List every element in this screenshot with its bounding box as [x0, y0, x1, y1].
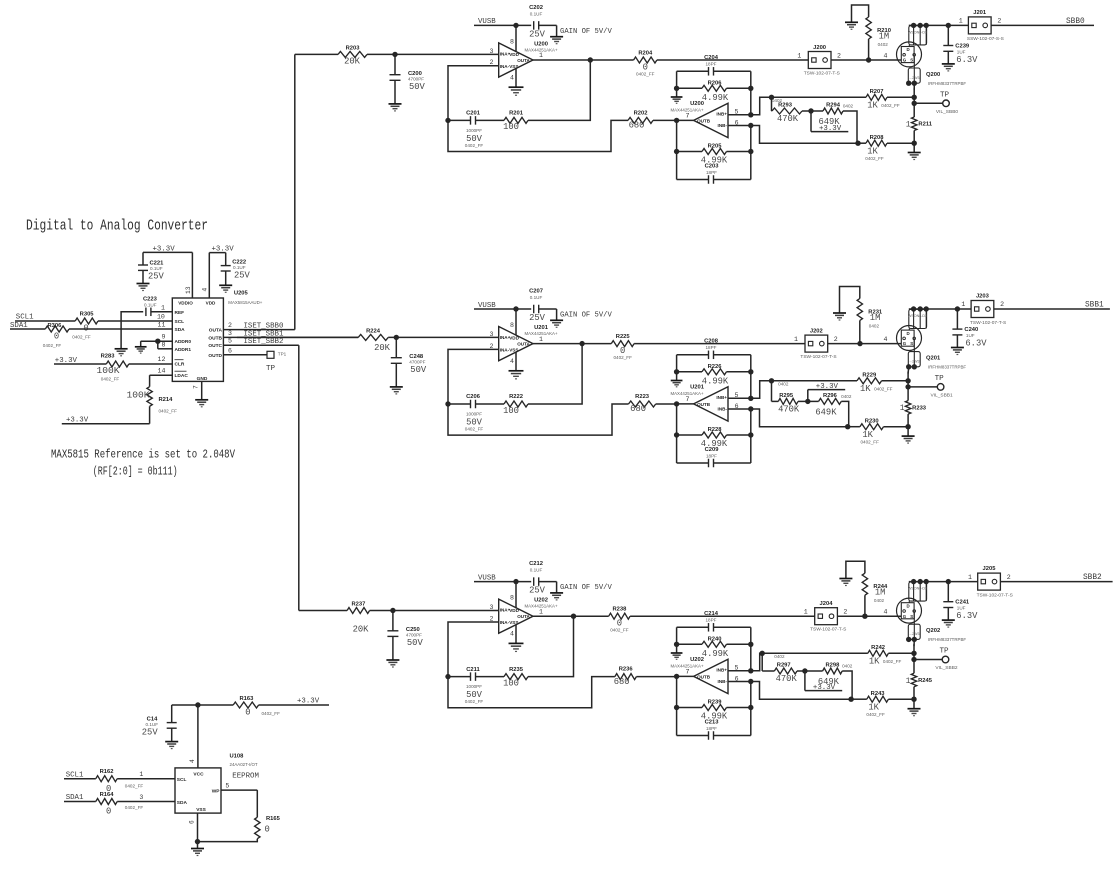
svg-text:C202: C202 [529, 5, 543, 11]
connector J202 TSW-102-07-T-S [794, 328, 838, 360]
svg-text:SCL: SCL [175, 319, 185, 325]
resistor R226 4.99K top [677, 364, 751, 386]
wire bottom row [851, 698, 867, 700]
svg-text:470K: 470K [777, 114, 799, 124]
svg-text:C212: C212 [529, 561, 543, 567]
svg-text:13: 13 [185, 286, 192, 294]
wire op-amp output [533, 343, 582, 345]
transistor Q201 IRFHM8337TRPBF [897, 309, 967, 370]
svg-text:20K: 20K [374, 343, 391, 353]
svg-text:R226: R226 [708, 364, 723, 370]
op-amp U200B MAX44251AKA+ [670, 101, 738, 137]
svg-text:LDAC: LDAC [175, 373, 189, 379]
svg-text:J201: J201 [973, 10, 987, 16]
svg-text:+3.3V: +3.3V [297, 698, 320, 706]
resistor R162 0 [96, 769, 144, 794]
node [748, 679, 753, 684]
svg-text:R214: R214 [159, 397, 174, 403]
svg-text:18PF: 18PF [706, 61, 717, 66]
ground [833, 312, 846, 314]
wire ISET input net to R224 [237, 336, 358, 338]
node [674, 705, 679, 710]
svg-text:INB-: INB- [718, 407, 728, 412]
power +3.3V [808, 383, 845, 401]
svg-text:1UF: 1UF [957, 606, 966, 611]
resistor R225 0 [611, 334, 634, 360]
svg-text:1: 1 [794, 336, 798, 343]
svg-text:1: 1 [900, 404, 905, 413]
node drain pins [911, 579, 916, 584]
resistor R293 470K [772, 97, 812, 124]
resistor R244 1M [846, 561, 888, 616]
svg-text:10: 10 [157, 313, 165, 320]
svg-text:VSS: VSS [509, 64, 518, 69]
capacitor C206 1000PF [448, 394, 504, 431]
svg-text:4: 4 [510, 358, 514, 365]
test point TP1 OUTD [223, 347, 286, 373]
svg-text:OUTA: OUTA [517, 614, 530, 619]
svg-text:REF: REF [175, 310, 185, 316]
op-amp U202B MAX44251AKA+ [670, 657, 738, 693]
svg-text:470K: 470K [778, 404, 800, 414]
svg-text:R293: R293 [778, 103, 793, 109]
svg-text:VSS: VSS [509, 347, 518, 352]
svg-text:0.1UF: 0.1UF [233, 265, 246, 270]
svg-text:VSS: VSS [509, 620, 518, 625]
wire SBB1 rail [909, 308, 971, 310]
node [855, 141, 860, 146]
svg-text:R222: R222 [509, 394, 523, 400]
svg-text:1M: 1M [870, 313, 881, 323]
node source pins [906, 364, 911, 369]
node [674, 642, 679, 647]
node [748, 369, 753, 374]
node stage B input [674, 674, 679, 679]
svg-text:0.1UF: 0.1UF [144, 302, 157, 307]
power +3.3V LDAC [62, 416, 150, 424]
svg-text:18PF: 18PF [706, 454, 717, 459]
svg-text:0402_FF: 0402_FF [72, 334, 91, 339]
svg-text:G: G [903, 58, 907, 63]
svg-text:20K: 20K [353, 625, 370, 635]
resistor R295 470K [772, 381, 808, 415]
svg-text:0.1UF: 0.1UF [146, 722, 159, 727]
resistor R296 649K [808, 393, 852, 427]
svg-text:U205: U205 [234, 291, 249, 297]
power +3.3V VDDIO [143, 245, 192, 298]
ground [135, 346, 147, 348]
svg-text:SDA: SDA [177, 800, 188, 806]
ground [165, 741, 178, 743]
svg-text:6: 6 [189, 820, 196, 824]
op-amp U201A MAX44251AKA+ [490, 322, 558, 365]
svg-text:9: 9 [162, 334, 166, 341]
svg-text:0402: 0402 [774, 654, 785, 659]
svg-text:TSW-102-07-T-S: TSW-102-07-T-S [800, 354, 836, 360]
node [955, 306, 960, 311]
ground [942, 63, 955, 65]
node [769, 95, 774, 100]
svg-text:TP: TP [940, 648, 950, 656]
capacitor C248 4700PF [391, 337, 427, 387]
node [845, 424, 850, 429]
svg-text:20K: 20K [344, 57, 361, 67]
svg-text:J200: J200 [813, 45, 826, 51]
wire inverting input [728, 125, 751, 127]
svg-text:0402_FF: 0402_FF [465, 699, 484, 704]
svg-text:INB+: INB+ [716, 395, 727, 400]
wire sense top row [762, 652, 868, 654]
svg-text:TSW-102-07-T-S: TSW-102-07-T-S [970, 320, 1006, 326]
svg-text:1K: 1K [867, 146, 878, 156]
svg-text:1: 1 [968, 574, 972, 581]
svg-text:→2W3: →2W3 [909, 632, 920, 636]
node gate junction [862, 614, 867, 619]
svg-text:25V: 25V [234, 270, 251, 280]
capacitor C214 18PF top [677, 611, 751, 645]
svg-text:R228: R228 [708, 427, 723, 433]
svg-text:R296: R296 [823, 393, 838, 399]
svg-text:0.1UF: 0.1UF [530, 295, 543, 300]
node [848, 697, 853, 702]
svg-text:4700PF: 4700PF [409, 359, 425, 364]
svg-text:U108: U108 [230, 753, 245, 759]
svg-text:50V: 50V [407, 638, 424, 648]
svg-text:INA-: INA- [500, 620, 510, 625]
resistor R204 0 [634, 51, 657, 77]
wire VDD supply [515, 25, 517, 52]
svg-text:4.99K: 4.99K [702, 376, 729, 386]
ground [908, 708, 921, 710]
wire to second stage [448, 404, 629, 435]
resistor R238 0 [609, 607, 630, 633]
svg-text:WP: WP [212, 788, 221, 794]
svg-text:2: 2 [1000, 301, 1004, 308]
resistor R208 1K [865, 135, 887, 161]
wire ground stub [676, 355, 678, 372]
node stage B input [674, 118, 679, 123]
node input junction [392, 52, 397, 57]
svg-text:8: 8 [162, 341, 166, 348]
svg-text:6.3V: 6.3V [965, 339, 987, 349]
svg-text:2: 2 [843, 609, 847, 616]
svg-text:R295: R295 [779, 393, 794, 399]
ground [671, 652, 683, 654]
svg-text:5: 5 [228, 338, 232, 345]
svg-text:R242: R242 [871, 645, 885, 651]
connector J205 TSW-102-07-T-S [968, 566, 1013, 598]
svg-text:1: 1 [539, 608, 543, 615]
svg-text:R208: R208 [870, 135, 885, 141]
svg-text:VIL_SBB0: VIL_SBB0 [936, 109, 958, 115]
svg-text:GAIN OF 5V/V: GAIN OF 5V/V [560, 28, 612, 36]
capacitor C222 0.1UF [221, 259, 251, 285]
svg-text:R297: R297 [777, 663, 791, 669]
resistor R210 1M [852, 5, 891, 60]
net VUSB [474, 574, 531, 582]
svg-text:R163: R163 [239, 696, 254, 702]
resistor R305 0 [72, 311, 98, 339]
resistor R228 4.99K bottom [677, 427, 751, 449]
test point VIL_SBB2 [914, 648, 958, 672]
svg-text:8: 8 [510, 39, 514, 46]
svg-text:14: 14 [158, 368, 166, 375]
svg-text:GAIN OF 5V/V: GAIN OF 5V/V [560, 312, 612, 320]
node [805, 399, 810, 404]
node [195, 702, 200, 707]
svg-text:R204: R204 [638, 51, 653, 57]
svg-text:25V: 25V [142, 728, 159, 738]
capacitor C211 1000PF [448, 667, 504, 704]
wire inverting input [448, 66, 499, 121]
svg-text:VDD: VDD [509, 336, 519, 341]
svg-text:1: 1 [139, 771, 143, 778]
resistor R235 100 [503, 667, 528, 689]
svg-text:1000PF: 1000PF [466, 684, 482, 689]
wire bottom row [858, 142, 866, 144]
svg-text:0: 0 [265, 825, 270, 835]
node source pins [906, 81, 911, 86]
svg-text:1: 1 [797, 52, 801, 59]
svg-text:7: 7 [686, 396, 690, 403]
wire ground stub [676, 627, 678, 644]
svg-text:0: 0 [245, 707, 250, 717]
resistor R306 0 [43, 323, 69, 348]
svg-text:3: 3 [490, 331, 494, 338]
ground [951, 347, 964, 349]
svg-text:R203: R203 [346, 46, 361, 52]
svg-text:ADDR1: ADDR1 [175, 347, 192, 353]
svg-text:C204: C204 [704, 55, 719, 61]
wire stage B output branch [677, 119, 694, 121]
power +3.3V EEPROM [172, 698, 329, 706]
svg-text:R224: R224 [366, 329, 381, 335]
svg-text:0402_FF: 0402_FF [465, 427, 484, 432]
svg-text:R229: R229 [862, 373, 877, 379]
node [912, 95, 917, 100]
svg-text:C214: C214 [704, 611, 719, 617]
svg-text:ISET_SBB1: ISET_SBB1 [244, 330, 284, 338]
svg-text:C201: C201 [466, 111, 481, 117]
wire VSS [189, 813, 198, 848]
node drain pins [911, 306, 916, 311]
svg-text:VDD: VDD [509, 52, 519, 57]
svg-text:D: D [907, 603, 910, 608]
svg-text:4: 4 [510, 631, 514, 638]
ground [191, 848, 204, 850]
svg-text:R165: R165 [266, 816, 281, 822]
svg-text:R235: R235 [509, 667, 524, 673]
svg-text:2: 2 [228, 322, 232, 329]
svg-text:1: 1 [804, 609, 808, 616]
svg-text:0: 0 [106, 807, 111, 817]
svg-text:CLR: CLR [175, 361, 185, 367]
svg-text:0402_FF: 0402_FF [861, 440, 880, 445]
resistor R222 100 [503, 394, 528, 416]
node [155, 339, 160, 344]
svg-text:TP: TP [940, 92, 950, 100]
resistor R239 4.99K bottom [677, 699, 751, 721]
svg-text:C208: C208 [704, 338, 719, 344]
svg-text:VSS: VSS [196, 807, 206, 813]
resistor R205 4.99K bottom [677, 143, 751, 165]
svg-text:0402_FF: 0402_FF [465, 143, 484, 148]
ground [115, 348, 128, 350]
svg-text:649K: 649K [815, 408, 837, 418]
svg-text:18PF: 18PF [706, 345, 717, 350]
svg-text:0402_FF: 0402_FF [881, 103, 900, 108]
capacitor C201 1000PF [448, 111, 504, 148]
svg-text:INB+: INB+ [716, 112, 727, 117]
svg-text:0402: 0402 [843, 104, 854, 109]
ground [509, 86, 524, 88]
node drain pins [911, 23, 916, 28]
test point VIL_SBB0 [914, 92, 958, 116]
wire to second stage [448, 120, 628, 151]
node gate junction [866, 57, 871, 62]
node VUSB junction [513, 306, 518, 311]
resistor R164 0 [96, 792, 144, 817]
svg-text:0402: 0402 [869, 324, 880, 329]
svg-text:EEPROM: EEPROM [232, 772, 259, 780]
ground [845, 21, 858, 23]
svg-text:(RF[2:0] = 0b111): (RF[2:0] = 0b111) [93, 466, 178, 479]
capacitor C250 4700PF [387, 611, 423, 661]
connector J200 TSW-102-07-T-S [797, 45, 841, 77]
svg-text:OUTB: OUTB [697, 674, 711, 679]
svg-text:ISET_SBB2: ISET_SBB2 [244, 338, 284, 346]
resistor R201 100 [503, 111, 528, 133]
node [769, 378, 774, 383]
wire inverting input [448, 349, 499, 404]
wire to second stage [448, 677, 615, 708]
wire GND pin [201, 381, 203, 399]
svg-text:0402_FF: 0402_FF [43, 343, 62, 348]
svg-text:0402: 0402 [878, 42, 889, 47]
svg-text:25V: 25V [148, 271, 165, 281]
svg-text:VDDIO: VDDIO [178, 301, 193, 306]
node output junction [579, 341, 584, 346]
svg-text:680: 680 [614, 677, 630, 687]
ground [219, 284, 232, 286]
net VUSB [474, 18, 531, 26]
resistor R243 1K [866, 691, 888, 717]
svg-text:25V: 25V [529, 313, 546, 323]
capacitor C208 18PF top [677, 338, 751, 372]
resistor R236 680 [614, 667, 637, 687]
svg-text:11: 11 [158, 321, 166, 328]
svg-text:18PF: 18PF [706, 170, 717, 175]
svg-text:OUTB: OUTB [697, 118, 711, 123]
ground [509, 370, 524, 372]
svg-text:TSW-102-07-T-S: TSW-102-07-T-S [804, 71, 840, 77]
resistor R206 4.99K top [677, 81, 751, 103]
svg-text:R201: R201 [509, 111, 524, 117]
svg-text:SDA: SDA [175, 327, 186, 333]
resistor R231 1M [840, 287, 883, 344]
net SCL1 [15, 313, 172, 321]
svg-text:C206: C206 [466, 394, 481, 400]
svg-text:0.1UF: 0.1UF [530, 568, 543, 573]
svg-text:WSON8-D3: WSON8-D3 [908, 587, 927, 591]
resistor R233 1K vertical [900, 401, 927, 415]
capacitor C207 0.1UF bypass [529, 289, 557, 324]
svg-text:3: 3 [490, 604, 494, 611]
connector J204 TSW-102-07-T-S [804, 601, 848, 633]
svg-text:8: 8 [510, 322, 514, 329]
svg-text:100: 100 [503, 406, 519, 416]
svg-text:J204: J204 [820, 601, 834, 607]
capacitor C14 0.1UF [142, 705, 177, 742]
svg-text:0402_FF: 0402_FF [614, 355, 633, 360]
ground [386, 659, 399, 661]
svg-text:0402: 0402 [841, 394, 852, 399]
wire op-amp output [533, 615, 574, 617]
svg-text:1K: 1K [862, 430, 873, 440]
node source pins [906, 637, 911, 642]
wire VDD supply [515, 309, 517, 336]
svg-text:SBB2: SBB2 [1083, 574, 1102, 582]
wire sense top row [772, 96, 867, 98]
resistor R242 1K [868, 645, 902, 667]
svg-text:TSW-102-07-T-S: TSW-102-07-T-S [977, 592, 1013, 598]
power +3.3V [811, 111, 848, 133]
svg-text:R205: R205 [708, 143, 723, 149]
svg-text:4700PF: 4700PF [408, 76, 424, 81]
svg-text:INB+: INB+ [716, 668, 727, 673]
svg-text:R306: R306 [47, 323, 62, 329]
net SDA1 eeprom [64, 794, 175, 802]
power +3.3V [805, 671, 842, 692]
svg-text:C213: C213 [705, 720, 720, 726]
svg-text:1: 1 [539, 336, 543, 343]
svg-text:25V: 25V [529, 29, 546, 39]
svg-text:4: 4 [884, 336, 888, 343]
power +3.3V CLR [54, 356, 172, 365]
wire inverting input [448, 622, 499, 677]
svg-text:R245: R245 [918, 678, 933, 684]
svg-text:→2W3: →2W3 [909, 360, 920, 364]
svg-text:OUTB: OUTB [697, 402, 711, 407]
svg-text:J202: J202 [810, 328, 823, 334]
svg-text:2: 2 [997, 18, 1001, 25]
svg-text:1K: 1K [867, 101, 878, 111]
svg-text:8: 8 [510, 595, 514, 602]
svg-text:S: S [910, 341, 913, 346]
svg-text:R225: R225 [616, 334, 631, 340]
ground [390, 386, 403, 388]
capacitor C213 18PF bottom [677, 708, 751, 740]
connector J201 SSW-102-07-S-S [959, 10, 1004, 42]
svg-text:18PF: 18PF [706, 726, 717, 731]
svg-text:6.3V: 6.3V [956, 55, 978, 65]
capacitor C202 0.1UF bypass [529, 5, 557, 40]
node [748, 86, 753, 91]
test point VIL_SBB1 [908, 375, 953, 399]
svg-text:C211: C211 [466, 667, 480, 673]
resistor R163 0 [233, 696, 280, 717]
wire ground stub [676, 71, 678, 88]
node [748, 406, 753, 411]
svg-text:1: 1 [959, 18, 963, 25]
svg-text:R211: R211 [918, 122, 932, 128]
svg-text:50V: 50V [410, 365, 427, 375]
node output junction [588, 57, 593, 62]
ground [671, 380, 683, 382]
svg-text:3: 3 [490, 48, 494, 55]
svg-text:IRFHM8337TRPBF: IRFHM8337TRPBF [928, 637, 966, 642]
svg-text:IRFHM8337TRPBF: IRFHM8337TRPBF [928, 365, 966, 370]
